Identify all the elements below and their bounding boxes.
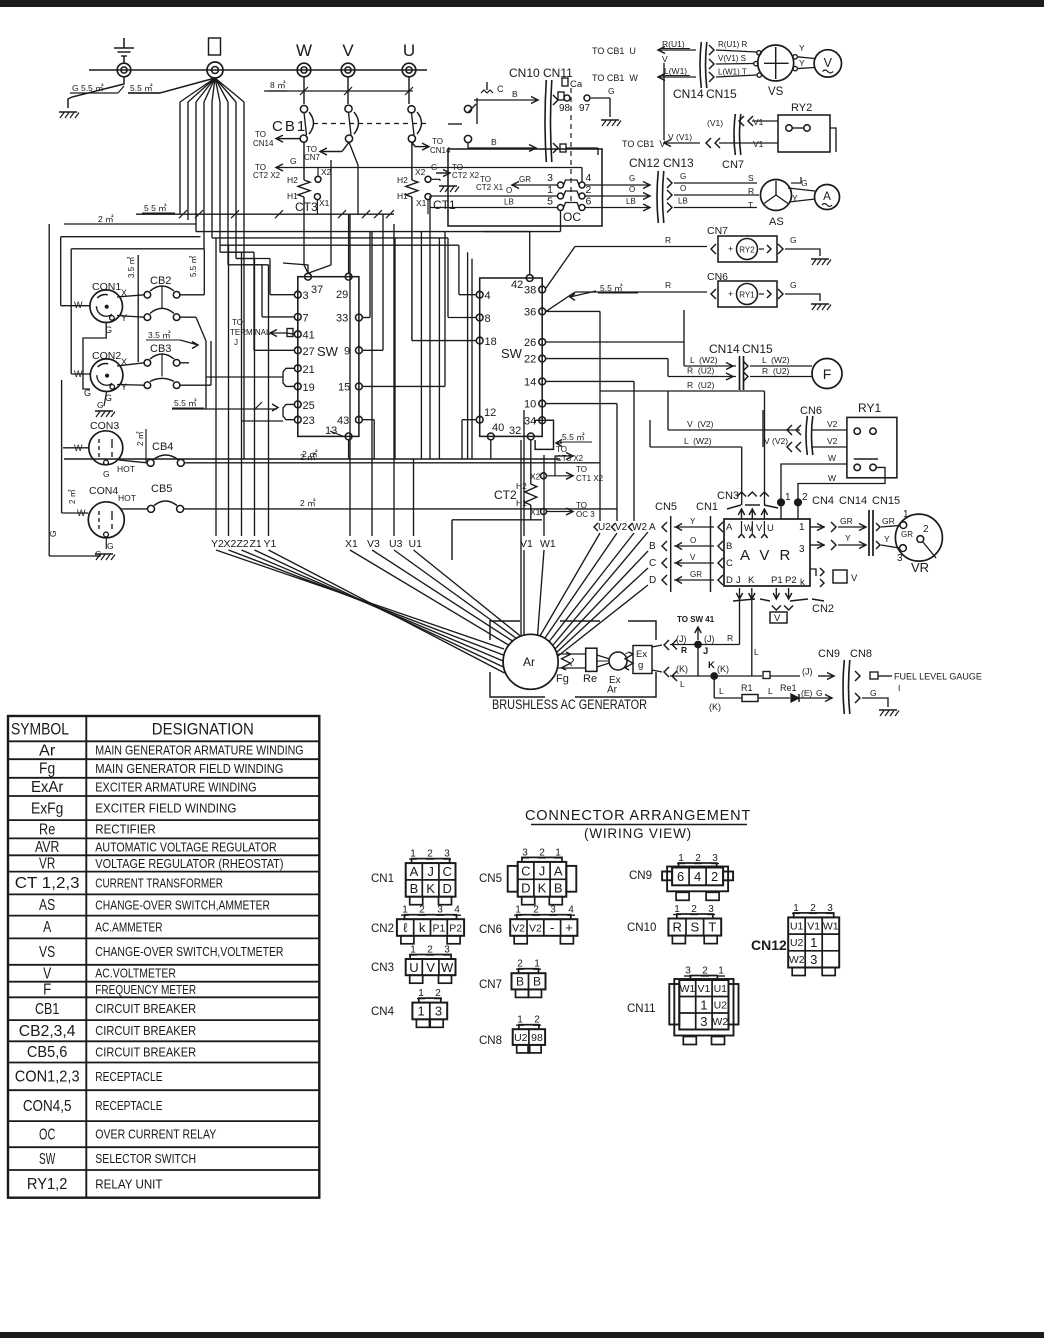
svg-text:5.5 ㎡: 5.5 ㎡	[130, 83, 153, 93]
RY1 unit right to ground	[767, 290, 771, 298]
svg-text:G: G	[629, 174, 635, 183]
svg-text:(V1): (V1)	[707, 118, 723, 128]
svg-text:G: G	[816, 688, 823, 698]
SW left right contacts	[356, 314, 363, 321]
svg-text:32: 32	[509, 425, 521, 437]
svg-text:V: V	[824, 56, 833, 70]
svg-text:H1: H1	[516, 498, 527, 508]
svg-text:Fg: Fg	[39, 761, 55, 778]
svg-text:CN1: CN1	[696, 501, 718, 513]
chevrons CN15 outputs	[709, 45, 714, 55]
exciter field ExFg winding	[625, 652, 633, 670]
ground RY2	[811, 258, 829, 260]
svg-text:G: G	[870, 688, 877, 698]
svg-text:W: W	[441, 960, 454, 975]
svg-text:Z1: Z1	[250, 538, 262, 550]
svg-text:V2: V2	[827, 436, 838, 446]
svg-text:B: B	[533, 975, 541, 989]
CB2 arcs	[150, 286, 174, 291]
current transformer CT1 winding	[406, 180, 418, 197]
wire K lower row	[713, 679, 715, 698]
CT3 X2 terminal	[315, 176, 321, 182]
svg-text:RELAY UNIT: RELAY UNIT	[95, 1177, 162, 1191]
svg-text:5.5 ㎡: 5.5 ㎡	[600, 283, 623, 293]
VR wiper	[923, 542, 937, 559]
svg-text:25: 25	[303, 400, 315, 412]
svg-text:TO CB1 W: TO CB1 W	[592, 73, 638, 83]
wire R to RY2 unit	[575, 246, 707, 248]
svg-text:V1: V1	[697, 983, 710, 995]
wire 5.5mm2 into 25	[172, 408, 277, 410]
svg-text:O: O	[629, 185, 635, 194]
svg-text:C: C	[443, 864, 452, 879]
svg-text:VR: VR	[911, 560, 929, 575]
svg-text:U3: U3	[389, 538, 403, 550]
svg-text:TO: TO	[556, 445, 567, 454]
svg-text:CURRENT TRANSFORMER: CURRENT TRANSFORMER	[95, 876, 223, 890]
outer left vertical wires	[48, 224, 50, 556]
automatic voltage regulator AVR box	[724, 519, 810, 586]
svg-text:V2: V2	[827, 419, 838, 429]
wire Fg to Re	[566, 653, 586, 655]
svg-text:Fg: Fg	[556, 673, 569, 685]
chevron CN10 upper	[553, 95, 558, 105]
wire V drop	[347, 77, 349, 104]
wire U phase below CT1	[411, 197, 413, 341]
svg-text:RY1: RY1	[858, 401, 881, 415]
svg-text:G: G	[608, 86, 615, 96]
svg-text:R: R	[673, 920, 682, 935]
svg-text:7: 7	[303, 312, 309, 324]
svg-text:Re1: Re1	[780, 683, 797, 693]
svg-text:12: 12	[484, 407, 496, 419]
connector CN14 CN15 mid bars	[739, 356, 741, 390]
svg-text:TO CB1 U: TO CB1 U	[592, 46, 636, 56]
engine switch T C symbol	[486, 82, 488, 90]
svg-text:CB1: CB1	[35, 1001, 59, 1018]
staircase wires	[188, 219, 375, 221]
svg-text:V2: V2	[512, 922, 525, 934]
SW left top contacts 37 29	[305, 273, 312, 280]
svg-text:VR: VR	[39, 856, 55, 873]
svg-text:CN7: CN7	[722, 159, 744, 171]
svg-text:GR: GR	[690, 570, 702, 579]
svg-text:O: O	[680, 184, 686, 193]
svg-text:L(W1): L(W1)	[664, 66, 687, 76]
svg-text:CT2 X2: CT2 X2	[253, 171, 281, 180]
RY1 upper contacts	[854, 428, 860, 434]
bracket wires contacts 21 19	[283, 368, 294, 386]
CT1 ground symbol	[439, 185, 457, 187]
over current relay OC box	[448, 149, 602, 226]
svg-text:CN14: CN14	[253, 139, 274, 148]
svg-text:(J): (J)	[802, 667, 813, 677]
OC contact pair 3-4	[558, 182, 564, 188]
wires to SW left contacts	[270, 294, 294, 296]
svg-text:J: J	[736, 575, 741, 586]
svg-text:K: K	[708, 660, 715, 671]
CN2 chevrons and V box	[772, 606, 781, 611]
svg-text:V: V	[662, 54, 668, 64]
CB1 pole W contacts	[300, 105, 307, 112]
svg-text:CB4: CB4	[152, 441, 173, 453]
svg-text:CN7: CN7	[707, 225, 728, 237]
diagonal fan into generator right	[350, 550, 509, 645]
wire contact4 to G bus	[581, 168, 583, 183]
ground RY1	[811, 303, 829, 305]
svg-text:G 5.5 ㎡: G 5.5 ㎡	[72, 83, 104, 93]
wire 33 loop up	[362, 317, 370, 319]
svg-text:CN7: CN7	[304, 153, 321, 162]
diagonal fan from U2 V2 W2	[540, 533, 600, 636]
svg-text:C: C	[521, 863, 530, 878]
svg-text:C: C	[726, 558, 733, 569]
svg-text:C: C	[497, 84, 504, 94]
CB3 arcs	[150, 354, 174, 359]
ammeter A	[815, 185, 840, 210]
CB1 pole V contacts	[345, 105, 352, 112]
svg-text:U2: U2	[714, 1000, 728, 1012]
svg-text:23: 23	[303, 415, 315, 427]
svg-text:GR: GR	[882, 516, 895, 526]
svg-text:H1: H1	[287, 191, 298, 201]
wires CN13 to AS	[674, 182, 757, 184]
svg-text:X1: X1	[319, 198, 330, 208]
CN1 spine	[710, 516, 712, 592]
svg-text:U: U	[403, 41, 415, 60]
CON4 W wire	[62, 512, 89, 514]
svg-text:(K): (K)	[709, 702, 721, 712]
svg-text:5.5 ㎡: 5.5 ㎡	[562, 432, 585, 442]
CON1 to CB2 wires	[117, 295, 144, 297]
node K dot	[711, 673, 717, 679]
svg-text:T: T	[748, 200, 753, 210]
svg-text:(WIRING VIEW): (WIRING VIEW)	[584, 826, 692, 841]
svg-text:U: U	[767, 523, 774, 534]
svg-text:ExFg: ExFg	[31, 800, 63, 817]
mechanical linkage dashed vertical	[570, 88, 572, 205]
svg-text:98: 98	[559, 103, 571, 114]
svg-text:V1: V1	[753, 117, 764, 127]
svg-text:V: V	[690, 553, 696, 562]
SW right top contact 42	[526, 275, 533, 282]
svg-text:k: k	[419, 920, 426, 935]
svg-text:+: +	[728, 244, 733, 254]
svg-text:6: 6	[586, 196, 592, 208]
switch blade	[468, 104, 476, 113]
svg-text:X2: X2	[530, 472, 541, 482]
svg-text:TO: TO	[576, 465, 587, 474]
svg-text:J: J	[234, 338, 238, 347]
CN3 bracket	[727, 505, 741, 509]
svg-text:D: D	[443, 881, 452, 896]
svg-text:X2: X2	[321, 167, 332, 177]
svg-text:F: F	[43, 982, 51, 999]
svg-text:Y: Y	[792, 193, 798, 203]
svg-text:97: 97	[579, 103, 591, 114]
RY2 right wire loop	[830, 128, 836, 152]
svg-text:K: K	[426, 881, 435, 896]
svg-text:V: V	[851, 573, 858, 584]
svg-text:U1: U1	[790, 921, 804, 933]
svg-text:L: L	[719, 686, 724, 696]
svg-text:G: G	[790, 235, 797, 245]
svg-text:P2: P2	[785, 575, 797, 586]
rectifier Re box	[586, 648, 597, 671]
svg-text:(E): (E)	[801, 688, 813, 698]
wire R to RY1 unit	[575, 291, 707, 293]
svg-text:2 ㎡: 2 ㎡	[136, 431, 145, 446]
svg-text:V: V	[756, 523, 763, 534]
svg-text:H1: H1	[397, 191, 408, 201]
svg-text:CB2,3,4: CB2,3,4	[19, 1023, 76, 1040]
relay RY2 box	[778, 115, 830, 152]
diagonal fan from nodes A B C D	[553, 532, 648, 645]
svg-text:W2: W2	[789, 954, 805, 966]
svg-text:BRUSHLESS AC GENERATOR: BRUSHLESS AC GENERATOR	[492, 697, 647, 712]
svg-text:A: A	[726, 522, 733, 533]
svg-text:R: R	[727, 633, 733, 643]
svg-text:36: 36	[524, 306, 536, 318]
svg-text:RY1: RY1	[739, 291, 755, 300]
wire J vertical from AVR	[739, 598, 741, 645]
arrow TO CT3 X2	[547, 456, 574, 476]
V sense box	[833, 570, 847, 583]
selector switch SW right box	[480, 278, 543, 436]
svg-text:AVR: AVR	[35, 839, 59, 856]
svg-text:1: 1	[700, 997, 707, 1012]
wires CN15 to F meter	[743, 361, 748, 371]
vertical wire into Ar top	[520, 440, 522, 635]
wire E to connector	[799, 697, 832, 699]
svg-text:J: J	[539, 863, 546, 878]
svg-text:2 ㎡: 2 ㎡	[302, 449, 318, 459]
svg-text:5 5 ㎡: 5 5 ㎡	[144, 203, 167, 213]
wire B to CN10 upper	[474, 99, 538, 101]
svg-text:CT1: CT1	[433, 198, 456, 212]
svg-text:CN12: CN12	[629, 156, 660, 170]
CB1 pole U contacts	[408, 106, 415, 113]
svg-text:TO SW 41: TO SW 41	[677, 615, 715, 624]
change-over switch VS	[758, 45, 794, 81]
svg-text:CIRCUIT BREAKER: CIRCUIT BREAKER	[95, 1024, 196, 1038]
AVR pin k right	[810, 569, 816, 576]
SW left side contacts	[294, 291, 301, 298]
wire L(W2) to CN14	[684, 365, 736, 367]
VS to V meter wires Y	[797, 57, 814, 59]
svg-text:LB: LB	[678, 197, 688, 206]
svg-text:X1: X1	[416, 198, 427, 208]
svg-text:Y: Y	[845, 533, 851, 543]
chevrons CN13	[667, 178, 672, 188]
ground terminal E	[117, 63, 131, 77]
svg-text:EXCITER ARMATURE WINDING: EXCITER ARMATURE WINDING	[95, 780, 256, 794]
relay RY2 circle	[737, 239, 758, 260]
svg-text:V1: V1	[520, 538, 533, 550]
AS to A meter wires	[788, 188, 815, 191]
svg-text:VS: VS	[39, 944, 55, 961]
extra mid verticals	[394, 238, 396, 459]
svg-text:14: 14	[524, 376, 536, 388]
svg-text:V: V	[43, 965, 52, 982]
svg-text:CT2: CT2	[494, 488, 517, 502]
CON3 to CB4 wire	[119, 460, 147, 463]
vertical wire x138	[137, 255, 139, 362]
CN5 spine	[670, 516, 672, 592]
svg-text:TO: TO	[232, 318, 243, 327]
svg-text:Re: Re	[583, 673, 597, 685]
svg-text:G: G	[107, 541, 114, 551]
svg-text:X2: X2	[224, 538, 237, 550]
bundle verticals left group	[215, 238, 217, 536]
svg-text:SW: SW	[39, 1151, 55, 1168]
svg-text:Ar: Ar	[607, 685, 618, 696]
svg-text:g: g	[638, 660, 643, 671]
current transformer CT3 winding	[298, 180, 310, 197]
svg-text:SW: SW	[317, 344, 339, 359]
svg-text:1: 1	[718, 966, 724, 977]
svg-text:W: W	[828, 453, 836, 463]
svg-text:K: K	[748, 575, 755, 586]
svg-text:H2: H2	[516, 481, 527, 491]
CON3 W wire	[63, 447, 89, 449]
wire V(V2) upper	[668, 429, 800, 431]
svg-text:CIRCUIT BREAKER: CIRCUIT BREAKER	[95, 1002, 196, 1016]
connector CN9 CN8 halves	[843, 660, 844, 714]
fuel gauge wire	[855, 671, 860, 681]
svg-text:F: F	[823, 366, 832, 382]
CON1 CON2 W wires	[61, 305, 90, 307]
svg-text:CON3: CON3	[90, 420, 119, 432]
svg-text:CIRCUIT BREAKER: CIRCUIT BREAKER	[95, 1045, 196, 1059]
svg-text:CT1 X2: CT1 X2	[576, 474, 604, 483]
svg-text:OC: OC	[563, 210, 581, 224]
CB2 right wires	[180, 294, 204, 296]
svg-text:2: 2	[586, 184, 592, 196]
svg-text:A: A	[649, 522, 656, 533]
wire into 23 bracket	[242, 420, 284, 422]
svg-text:CN15: CN15	[742, 342, 773, 356]
node wires into AVR top	[780, 506, 782, 519]
svg-text:SW: SW	[501, 346, 523, 361]
symbol table	[8, 716, 319, 1198]
CT2 X1 terminal	[541, 509, 547, 515]
svg-text:3: 3	[547, 172, 553, 184]
terminal V	[341, 63, 355, 77]
wire 13 down	[348, 440, 350, 459]
svg-text:G: G	[680, 172, 686, 181]
node J dot	[695, 641, 701, 647]
svg-text:41: 41	[303, 330, 315, 342]
terminal W	[297, 63, 311, 77]
svg-text:CHANGE-OVER SWITCH,AMMETER: CHANGE-OVER SWITCH,AMMETER	[95, 898, 270, 912]
wire terminal 98	[558, 92, 564, 100]
engine switch contact 2	[464, 135, 471, 142]
svg-text:2 ㎡: 2 ㎡	[98, 214, 114, 224]
bundle verticals right group	[349, 214, 351, 536]
svg-text:Ca: Ca	[570, 79, 583, 90]
CT1 X1 wire down	[427, 200, 429, 215]
svg-text:W: W	[828, 473, 836, 483]
wire U drop	[408, 77, 410, 104]
svg-text:4: 4	[694, 869, 701, 884]
CON4 to CB5 wire	[120, 508, 148, 510]
main terminal bus wire	[89, 69, 427, 71]
CT1 X1 terminal	[425, 194, 431, 200]
svg-text:CHANGE-OVER SWITCH,VOLTMETER: CHANGE-OVER SWITCH,VOLTMETER	[95, 945, 283, 959]
svg-text:Y: Y	[121, 313, 127, 323]
svg-text:V: V	[342, 41, 354, 60]
svg-text:GR: GR	[519, 175, 531, 184]
svg-text:R1: R1	[741, 683, 753, 693]
bottom border bar	[0, 1332, 1044, 1338]
svg-text:SELECTOR SWITCH: SELECTOR SWITCH	[95, 1152, 196, 1166]
svg-text:V: V	[426, 960, 435, 975]
svg-text:2: 2	[923, 524, 929, 535]
svg-text:CN2: CN2	[812, 603, 834, 615]
svg-text:I: I	[898, 683, 900, 693]
svg-text:CON4,5: CON4,5	[23, 1098, 72, 1115]
svg-text:Ex: Ex	[636, 649, 647, 660]
svg-text:R(U1): R(U1)	[662, 39, 685, 49]
CN2 bracket	[733, 599, 755, 601]
svg-text:B: B	[649, 541, 656, 552]
wire 8mm2 bus to breakers	[264, 90, 413, 92]
AVR left pin chevrons	[718, 522, 723, 532]
svg-text:B: B	[410, 881, 419, 896]
connector CN10 CN11 halves	[545, 80, 546, 162]
svg-text:B: B	[491, 137, 497, 147]
svg-text:G: G	[97, 400, 104, 410]
wire CT2 down	[530, 505, 532, 520]
svg-text:5.5 ㎡: 5.5 ㎡	[174, 398, 197, 408]
svg-text:CN6: CN6	[479, 924, 502, 936]
svg-text:CN9: CN9	[818, 648, 840, 660]
svg-text:W2: W2	[712, 1016, 728, 1028]
svg-text:22: 22	[524, 354, 536, 366]
svg-text:TO CB1 V: TO CB1 V	[622, 139, 665, 149]
VR terminal 2	[917, 536, 924, 543]
svg-text:CN14: CN14	[839, 495, 867, 507]
arrow TO OC 3	[547, 511, 574, 513]
svg-text:LB: LB	[504, 198, 514, 207]
receptacle CON2	[90, 359, 123, 392]
wires CN15 to VS	[716, 50, 757, 52]
wire W phase lower vertical	[303, 214, 305, 265]
svg-text:U2: U2	[790, 937, 804, 949]
ExFg chevrons to CN5	[664, 640, 669, 650]
SW right right contacts	[539, 286, 546, 293]
svg-text:V1: V1	[753, 139, 764, 149]
svg-text:R: R	[665, 235, 671, 245]
svg-text:6: 6	[677, 869, 684, 884]
svg-text:C: C	[649, 558, 656, 569]
chevron CN10 lower	[553, 143, 558, 153]
svg-text:CN6: CN6	[800, 405, 822, 417]
ground wire from terminal E	[68, 77, 124, 108]
svg-text:L: L	[680, 679, 685, 689]
svg-text:Y: Y	[121, 382, 127, 392]
svg-text:AS: AS	[769, 216, 784, 228]
CB1 pole W arc	[309, 112, 314, 134]
connector CN14 CN15 top halves	[700, 42, 701, 88]
CT1 X2 terminal	[425, 176, 431, 182]
svg-text:15: 15	[338, 382, 350, 394]
top border bar	[0, 0, 1044, 7]
svg-text:21: 21	[303, 364, 315, 376]
svg-text:B: B	[554, 881, 563, 896]
svg-text:(J): (J)	[704, 634, 715, 644]
